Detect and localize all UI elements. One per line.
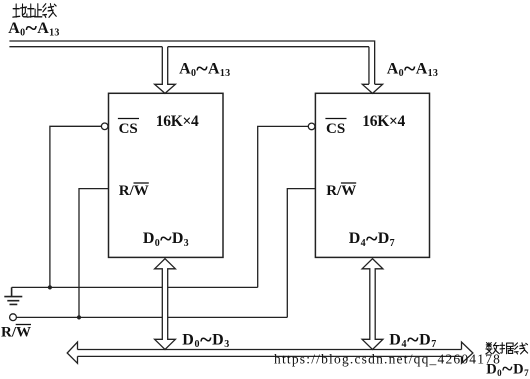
wire CS from U1 bubble to vertical riser bbox=[50, 126, 102, 287]
svg-text:D0~D7: D0~D7 bbox=[486, 358, 529, 379]
svg-text:https://blog.csdn.net/qq_42604: https://blog.csdn.net/qq_42604178 bbox=[274, 351, 501, 366]
data arrow U2 (bidirectional) bbox=[362, 259, 383, 350]
svg-text:R/W: R/W bbox=[326, 183, 356, 199]
wire CS riser to U2 bubble bbox=[258, 126, 309, 287]
svg-text:D0~D3: D0~D3 bbox=[143, 225, 189, 250]
svg-text:A0~A13: A0~A13 bbox=[8, 15, 59, 40]
svg-text:D4~D7: D4~D7 bbox=[349, 225, 395, 250]
label 地址线 (address line, hand-drawn glyphs) bbox=[13, 4, 56, 18]
svg-text:16K×4: 16K×4 bbox=[362, 113, 405, 130]
inversion bubble U2 CS bbox=[308, 123, 315, 130]
svg-text:A0~A13: A0~A13 bbox=[179, 56, 230, 81]
svg-text:R/W: R/W bbox=[1, 325, 31, 341]
svg-text:16K×4: 16K×4 bbox=[156, 113, 199, 130]
junction dot CS line bbox=[48, 285, 52, 289]
data arrow U1 (bidirectional) bbox=[155, 259, 176, 350]
junction dot R/W line bbox=[77, 315, 81, 319]
wire R/W riser to U2 bbox=[287, 189, 315, 318]
wire R/W riser to U1 bbox=[79, 189, 109, 318]
data bus right arrowhead bbox=[462, 342, 473, 363]
R/W input terminal circle bbox=[10, 314, 17, 321]
data bus left arrowhead bbox=[67, 342, 77, 363]
svg-text:CS: CS bbox=[326, 121, 345, 137]
inversion bubble U1 CS bbox=[101, 123, 108, 130]
data bus lines bbox=[78, 350, 462, 357]
memory chip U1 16Kx4 bbox=[109, 93, 224, 257]
ground bbox=[4, 287, 22, 304]
svg-text:R/W: R/W bbox=[119, 183, 149, 199]
address arrow head to U2 bbox=[362, 84, 382, 93]
svg-text:D0~D3: D0~D3 bbox=[182, 327, 230, 352]
svg-text:CS: CS bbox=[119, 121, 138, 137]
address bus bottom line bbox=[9, 47, 369, 85]
svg-text:A0~A13: A0~A13 bbox=[387, 56, 438, 81]
address arrow to U1 bbox=[155, 47, 176, 94]
svg-text:D4~D7: D4~D7 bbox=[389, 327, 437, 352]
wire R/W main horizontal line bbox=[16, 316, 287, 318]
label 数据线 (data line, hand-drawn glyphs) bbox=[486, 343, 528, 354]
memory chip U2 16Kx4 bbox=[315, 93, 429, 257]
wire CS main horizontal line bbox=[12, 286, 258, 288]
address bus top line bbox=[9, 41, 374, 84]
